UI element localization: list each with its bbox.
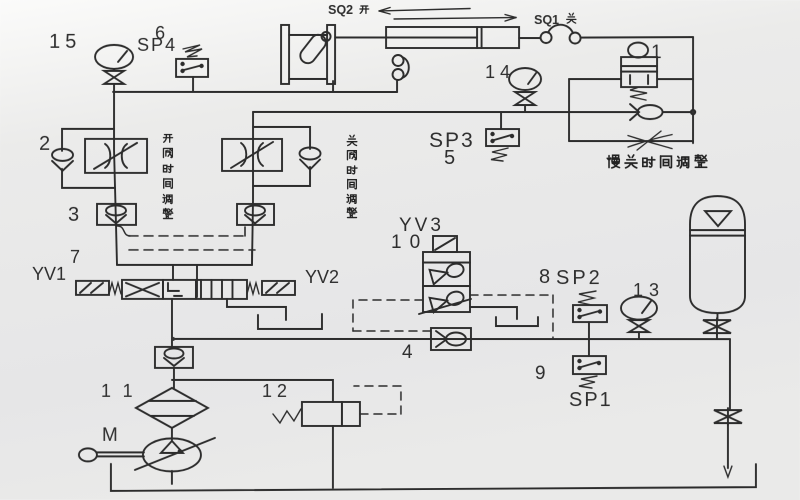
check valve 11: [155, 347, 193, 388]
relief valve pilot dashed: [354, 386, 401, 414]
svg-text:1: 1: [651, 42, 662, 63]
solenoid YV1: [76, 281, 121, 295]
svg-text:3: 3: [68, 204, 79, 226]
actuator crank capsule: [297, 32, 330, 66]
check valve 3b: [237, 204, 274, 225]
YV3 outlet bracket: [470, 307, 538, 326]
svg-text:11: 11: [101, 381, 146, 401]
vertical text: open-valve time adjust: [163, 135, 173, 219]
svg-text:15: 15: [49, 31, 81, 53]
pilot check valve in loop: [630, 104, 663, 120]
shutoff valve under gauge 13: [629, 320, 649, 339]
electric motor M: [79, 448, 144, 461]
svg-text:SP2: SP2: [556, 267, 603, 289]
svg-text:8: 8: [539, 266, 550, 288]
limit switch SQ1 contacts: [541, 25, 694, 44]
valve 7 feeder wires: [172, 265, 174, 280]
filter: [136, 388, 208, 440]
YV3 pilot dashed right: [470, 295, 553, 338]
wire right drop to drain valve: [729, 339, 731, 410]
wire actuator to line A: [332, 81, 334, 92]
wire: line A horizontal y92: [113, 91, 397, 93]
svg-text:M: M: [102, 425, 118, 446]
pressure gauge 13: [621, 297, 657, 320]
check valve (close branch): [300, 147, 321, 169]
tank boundary: [111, 464, 756, 491]
wire pump branch y380: [172, 380, 333, 402]
pressure switch 6 SP4: [176, 45, 208, 92]
bus wire above valve 7: [117, 264, 252, 266]
pressure gauge 15: [95, 45, 133, 71]
pressure switch 9 SP1: [573, 339, 606, 388]
limit switch rollers under cylinder: [393, 55, 409, 92]
check valve 4: [431, 328, 471, 350]
wire main pressure line y339: [172, 338, 730, 340]
svg-text:13: 13: [633, 280, 665, 300]
svg-text:4: 4: [402, 342, 413, 363]
directional valve 7 body: [122, 280, 247, 299]
solenoid valve 10 body: [419, 252, 471, 314]
pilot squiggle: [117, 226, 130, 236]
vertical text: close-valve time adjust: [347, 135, 357, 217]
throttle valve (open-time): [85, 139, 147, 173]
label SQ2 open: [328, 3, 369, 17]
pilot dashed row 2: [129, 250, 255, 264]
junction at loop right: [691, 110, 695, 114]
cartridge valve 1: [621, 43, 657, 101]
svg-text:7: 7: [70, 247, 80, 267]
wire valve 7 to check 11: [171, 299, 173, 347]
wire: left main vertical: [114, 92, 117, 265]
wire SP3 drop: [500, 112, 502, 129]
hydraulic cylinder: [335, 27, 540, 48]
svg-text:SP1: SP1: [569, 389, 613, 411]
check valve 2: [52, 149, 73, 171]
solenoid YV2: [247, 281, 295, 295]
svg-text:SQ2: SQ2: [328, 3, 353, 17]
shutoff valve under gauge 14: [515, 92, 535, 112]
shutoff valve under gauge 15: [104, 71, 124, 92]
svg-text:9: 9: [535, 363, 546, 384]
wire line B y112: [253, 111, 569, 113]
arrow to SQ1 (points right): [394, 14, 516, 21]
YV3 pilot dashed left: [353, 300, 431, 331]
right branch top wire from line B: [252, 112, 253, 265]
svg-text:12: 12: [262, 381, 292, 401]
wire right vertical from SQ1: [692, 37, 694, 143]
pressure switch 5 SP3: [486, 129, 519, 161]
throttle valve (close-time): [222, 139, 282, 171]
svg-text:10: 10: [391, 232, 428, 253]
svg-text:5: 5: [444, 147, 455, 169]
svg-text:2: 2: [39, 133, 50, 155]
drain bracket A under valve 7: [227, 299, 286, 320]
pilot dashed row 1: [129, 227, 245, 236]
accumulator: [690, 196, 745, 320]
pressure gauge 14: [509, 68, 541, 90]
label slow-close time adjust: [607, 155, 707, 168]
label SQ1 close: [534, 13, 576, 27]
pump: [135, 438, 215, 484]
shutoff valve under accumulator: [703, 318, 731, 339]
right bypass wire: [253, 127, 310, 149]
left bypass wire: [62, 129, 114, 151]
adjustable throttle (slow close): [628, 131, 672, 150]
solenoid valve YV3 pilot head: [433, 236, 457, 252]
check valve 3: [97, 204, 136, 225]
pressure switch 8 SP2: [573, 291, 607, 339]
drain bracket B under valve 7: [258, 314, 322, 329]
slow-close loop frame: [569, 79, 693, 141]
rotary actuator frame: [281, 25, 335, 84]
relief valve 12: [273, 402, 360, 488]
svg-text:14: 14: [485, 62, 515, 82]
svg-text:SP4: SP4: [137, 35, 177, 55]
arrow to SQ2 (points left): [379, 7, 470, 14]
drain shutoff valve: [714, 408, 742, 477]
svg-text:YV2: YV2: [305, 267, 339, 287]
junction pump line tee: [171, 337, 175, 341]
svg-text:YV1: YV1: [32, 264, 66, 284]
